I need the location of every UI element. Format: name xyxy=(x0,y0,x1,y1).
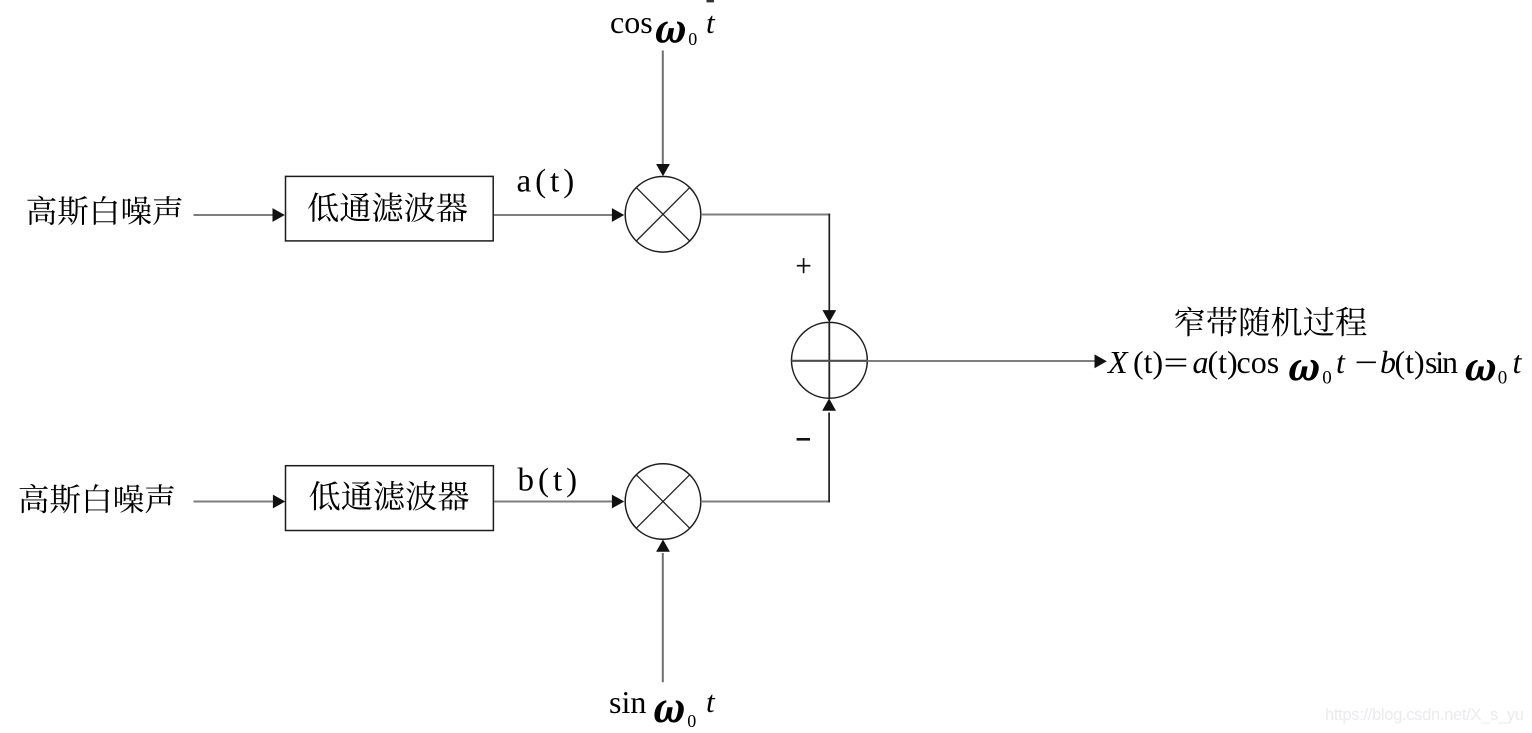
svg-text:0: 0 xyxy=(688,29,697,49)
svg-text:b(t): b(t) xyxy=(518,463,582,499)
svg-text:(t): (t) xyxy=(1208,344,1238,380)
text 窄带随机过程 xyxy=(1175,307,1366,337)
wire cos to M1 xyxy=(662,51,664,165)
svg-text:sin: sin xyxy=(609,684,646,720)
svg-text:(t): (t) xyxy=(1395,344,1425,380)
svg-text:X: X xyxy=(1106,344,1129,380)
svg-text:a: a xyxy=(1193,344,1209,380)
label minus xyxy=(797,438,810,441)
multiplier M1 xyxy=(625,177,701,253)
svg-text:0: 0 xyxy=(687,711,696,731)
text noise1 高斯白噪声 xyxy=(27,196,181,225)
text LPF1 低通滤波器 xyxy=(308,192,467,222)
text noise2 高斯白噪声 xyxy=(20,484,174,513)
wire noise1 to LPF1 xyxy=(194,214,274,216)
svg-text:t: t xyxy=(1336,344,1346,380)
stray mark top xyxy=(707,0,715,2)
svg-text:cos: cos xyxy=(610,4,653,40)
svg-text:−: − xyxy=(1355,345,1378,380)
wire LPF1 to multiplier M1 xyxy=(494,214,612,216)
svg-text:t: t xyxy=(706,5,716,40)
svg-text:=: = xyxy=(1164,346,1189,381)
block LPF2 低通滤波器 xyxy=(286,466,494,531)
wire noise2 to LPF2 xyxy=(194,500,274,502)
wire sin to M2 xyxy=(662,553,664,682)
svg-text:https://blog.csdn.net/X_s_yu: https://blog.csdn.net/X_s_yu xyxy=(1325,705,1524,724)
svg-text:0: 0 xyxy=(1498,368,1508,389)
summer S1 xyxy=(792,322,868,398)
svg-text:t: t xyxy=(1513,344,1523,380)
svg-text:(t): (t) xyxy=(1133,344,1163,380)
formula X(t)=a(t)cos w0 t - b(t) sin w0 t xyxy=(1106,344,1523,389)
wire M2 to summer xyxy=(701,500,830,502)
wire summer to output xyxy=(867,360,1095,362)
svg-text:sin: sin xyxy=(1425,344,1458,380)
wire M1 to summer xyxy=(701,213,830,215)
svg-text:0: 0 xyxy=(1322,368,1332,389)
label plus xyxy=(797,258,811,273)
wire LPF2 to multiplier M2 xyxy=(494,500,612,502)
svg-text:t: t xyxy=(706,684,716,719)
svg-text:a(t): a(t) xyxy=(517,164,579,200)
svg-text:cos: cos xyxy=(1237,344,1280,380)
text LPF2 低通滤波器 xyxy=(309,481,468,511)
block LPF1 低通滤波器 xyxy=(286,176,494,241)
multiplier M2 xyxy=(625,464,701,540)
